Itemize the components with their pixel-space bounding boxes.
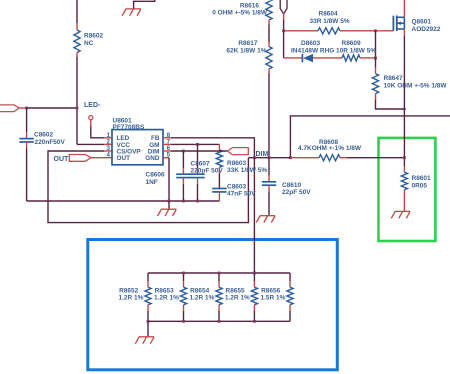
junction CS/feed to bank bbox=[253, 156, 256, 159]
svg-text:R8609: R8609 bbox=[342, 40, 362, 47]
pin wire pin 6 DIM bbox=[163, 150, 171, 152]
resistor R8654 bbox=[216, 287, 222, 305]
pin wire R8654 bottom bbox=[218, 305, 220, 311]
ground (bank) bbox=[139, 336, 155, 338]
svg-text:R8656: R8656 bbox=[261, 287, 281, 294]
junction CS row / riser bbox=[289, 156, 292, 159]
pin wire C8610 bottom bbox=[268, 185, 270, 191]
pin wire R8608 left bbox=[290, 157, 319, 159]
wire top connector to gate node bbox=[283, 20, 285, 31]
pin wire R8653 top bbox=[183, 281, 185, 287]
junction gate drive node bbox=[282, 29, 285, 32]
junction VCC net bbox=[76, 107, 79, 110]
svg-text:62K 1/8W 1%: 62K 1/8W 1% bbox=[226, 47, 266, 54]
wire R8616 to R8617 bbox=[268, 25, 270, 43]
resistor R8616 bbox=[266, 0, 272, 20]
junction C8606/ground bus bbox=[182, 200, 185, 203]
wire R8655 bottom bbox=[253, 311, 255, 321]
pin wire R8601 top bbox=[403, 166, 405, 172]
capacitor C8607 bbox=[190, 173, 204, 175]
wire GM node down to C8607 bbox=[197, 144, 199, 168]
svg-text:220nF50V: 220nF50V bbox=[35, 139, 66, 146]
svg-text:1NF: 1NF bbox=[146, 179, 158, 186]
wire DIM node down to C8606 bbox=[182, 151, 184, 168]
ground (C8610) bbox=[260, 215, 276, 217]
svg-text:AOD2922: AOD2922 bbox=[412, 26, 441, 33]
resistor R8656 bbox=[287, 287, 293, 305]
svg-text:4.7KOHM +-1% 1/8W: 4.7KOHM +-1% 1/8W bbox=[298, 145, 362, 152]
pin wire from input connector bbox=[19, 107, 26, 109]
junction bank top bus bbox=[182, 272, 185, 275]
resistor R8609 bbox=[342, 55, 360, 61]
ground bus wire bbox=[27, 200, 220, 202]
resistor R8602 bbox=[74, 30, 80, 53]
wire gate node down to diode row bbox=[283, 31, 285, 58]
svg-text:0R05: 0R05 bbox=[412, 183, 428, 190]
pin wire C8607 bottom bbox=[197, 178, 199, 184]
svg-text:R8616: R8616 bbox=[240, 2, 260, 9]
wire top ground stub bbox=[134, 0, 155, 9]
wire stub to ground symbol bbox=[168, 201, 170, 209]
svg-text:47nF 50V: 47nF 50V bbox=[227, 190, 256, 197]
svg-text:DIM: DIM bbox=[256, 151, 269, 158]
pin wire R8604 right bbox=[340, 30, 376, 32]
svg-text:220pF 50V: 220pF 50V bbox=[191, 168, 224, 175]
svg-text:D8603: D8603 bbox=[301, 40, 321, 47]
pin wire R8609 right bbox=[360, 57, 376, 59]
wire R8654 bottom bbox=[218, 311, 220, 321]
pin wire R8603 top bbox=[218, 144, 220, 149]
wire bank top bus bbox=[148, 272, 290, 274]
svg-text:R8602: R8602 bbox=[84, 33, 104, 40]
wire R8603 to C8603 bbox=[218, 173, 220, 189]
junction bank top bus bbox=[253, 272, 256, 275]
junction R8608/source column bbox=[403, 156, 406, 159]
svg-text:Q8601: Q8601 bbox=[412, 19, 432, 26]
pin wire R8655 bottom bbox=[253, 305, 255, 311]
pin wire R8602 bottom bbox=[76, 53, 78, 58]
svg-text:C8606: C8606 bbox=[146, 172, 166, 179]
svg-text:NC: NC bbox=[84, 40, 94, 47]
op-amp U8601 PF7708BS body bbox=[112, 130, 163, 165]
wire GND pin down to ground bus bbox=[168, 158, 170, 201]
svg-text:C8607: C8607 bbox=[191, 161, 211, 168]
pin wire R8654 top bbox=[218, 281, 220, 287]
junction bank bottom bus bbox=[218, 320, 221, 323]
junction feed/bank top bus bbox=[253, 272, 256, 275]
capacitor C8606 bbox=[176, 173, 190, 175]
pin wire C8603 bottom to ground bus bbox=[218, 192, 220, 201]
svg-text:1.2R 1%: 1.2R 1% bbox=[190, 295, 215, 302]
wire to MOSFET gate bbox=[376, 30, 394, 32]
capacitor C8602 bbox=[19, 138, 33, 140]
svg-text:33K 1/8W 5%: 33K 1/8W 5% bbox=[227, 167, 267, 174]
svg-text:R8652: R8652 bbox=[119, 287, 139, 294]
resistor R8652 bbox=[145, 287, 151, 305]
svg-text:R8655: R8655 bbox=[226, 287, 246, 294]
wire R8653 top bbox=[183, 273, 185, 281]
wire bank to ground bbox=[147, 321, 149, 337]
pin wire R8656 top bbox=[289, 281, 291, 287]
wire R8653 bottom bbox=[183, 311, 185, 321]
wire R8655 top bbox=[253, 273, 255, 281]
junction R8604/R8609/R8647 bbox=[374, 29, 377, 32]
wire GM to R8603 bbox=[171, 143, 219, 145]
wire input node down to C8602 bbox=[26, 108, 28, 133]
svg-text:OUT: OUT bbox=[54, 156, 70, 163]
resistor R8653 bbox=[180, 287, 186, 305]
off-page connector (top, pointing down) bbox=[280, 0, 287, 14]
svg-text:22pF 50V: 22pF 50V bbox=[282, 189, 311, 196]
pin wire C8602 bottom bbox=[26, 142, 28, 148]
junction CS/R8617 column bbox=[268, 156, 271, 159]
svg-text:R8647: R8647 bbox=[384, 75, 404, 82]
pin wire C8602 top bbox=[26, 133, 28, 139]
junction input/C8602 bbox=[25, 107, 28, 110]
pin wire from LED- terminal bbox=[90, 120, 92, 127]
pin wire C8606 bottom bbox=[182, 178, 184, 184]
svg-text:R8603: R8603 bbox=[227, 160, 247, 167]
pin wire source bbox=[403, 29, 405, 36]
pin wire C8607 top bbox=[197, 168, 199, 174]
junction GND/ground bus bbox=[168, 200, 171, 203]
wire source down to R8601 bbox=[403, 36, 405, 166]
wire CS/OVP left and down bbox=[48, 151, 248, 223]
pin wire D8603 anode side bbox=[284, 57, 303, 59]
svg-text:C8603: C8603 bbox=[227, 183, 247, 190]
pin wire R8652 top bbox=[147, 281, 149, 287]
resistor R8608 bbox=[319, 155, 340, 161]
wire R8656 top bbox=[289, 273, 291, 281]
resistor R8655 bbox=[251, 287, 257, 305]
pin wire D8603 to R8609 bbox=[313, 57, 342, 59]
ground (top) bbox=[125, 8, 141, 10]
svg-text:R8653: R8653 bbox=[155, 287, 175, 294]
off-page connector (left input) bbox=[0, 105, 19, 112]
wire bank bottom bus bbox=[148, 320, 290, 322]
off-page connector OUT bbox=[69, 155, 91, 162]
svg-text:OUT: OUT bbox=[117, 155, 131, 162]
svg-text:GND: GND bbox=[145, 155, 160, 162]
resistor R8601 bbox=[401, 172, 407, 190]
wire R8656 bottom bbox=[289, 311, 291, 321]
resistor R8617 bbox=[266, 47, 272, 70]
svg-text:10R 1/8W 5%: 10R 1/8W 5% bbox=[336, 48, 376, 55]
junction bank bottom bus bbox=[182, 320, 185, 323]
pin wire R8602 top bbox=[76, 23, 78, 30]
svg-text:LED-: LED- bbox=[84, 102, 101, 109]
pin wire top connector bbox=[283, 13, 285, 20]
wire R8652 top bbox=[147, 273, 149, 281]
wire R8608 to source node bbox=[347, 157, 404, 159]
node LED- open terminal bbox=[89, 116, 93, 120]
svg-text:R8654: R8654 bbox=[190, 287, 210, 294]
svg-text:R8617: R8617 bbox=[238, 40, 258, 47]
wire CS row to right edge bbox=[290, 116, 450, 158]
pin wire pin 1 LED bbox=[104, 137, 112, 139]
wire R8601 to ground bbox=[403, 196, 405, 211]
pin wire R8617 bottom bbox=[268, 69, 270, 74]
wire C8606 to ground bus bbox=[182, 184, 184, 201]
wire R8617 down to DIM/CS row bbox=[268, 74, 270, 158]
transistor Q8601 AOD2922 bbox=[392, 16, 394, 31]
pin wire R8603 bottom bbox=[218, 167, 220, 173]
wire CS node down to resistor bank bbox=[253, 158, 255, 273]
wire vertical from top edge to R8602 bbox=[76, 0, 78, 23]
pin wire R8656 bottom bbox=[289, 305, 291, 311]
wire vertical to VCC pin row bbox=[76, 108, 78, 144]
wire FB to CS node bbox=[171, 138, 254, 158]
pin wire C8606 top bbox=[182, 168, 184, 174]
svg-text:R8601: R8601 bbox=[412, 175, 432, 182]
off-page connector DIM arrow bbox=[228, 148, 249, 155]
wire down to R8647 bbox=[375, 58, 377, 68]
wire R8647 to source node bbox=[376, 99, 405, 109]
capacitor C8610 bbox=[262, 181, 276, 183]
pin wire pin 8 FB bbox=[163, 137, 171, 139]
svg-text:1.2R 1%: 1.2R 1% bbox=[154, 295, 179, 302]
highlight box (green) around R8601 bbox=[379, 138, 436, 241]
pin wire R8652 bottom bbox=[147, 305, 149, 311]
svg-text:IN4148W RHG: IN4148W RHG bbox=[291, 48, 334, 55]
junction R8609/R8647 bbox=[374, 57, 377, 60]
resistor R8604 bbox=[318, 28, 340, 34]
wire C8610 to ground bbox=[268, 191, 270, 215]
wire CS row left section bbox=[248, 157, 290, 159]
capacitor C8603 bbox=[212, 188, 226, 190]
svg-text:0 OHM +-5% 1/8W: 0 OHM +-5% 1/8W bbox=[212, 10, 268, 17]
pin wire pin 5 GND bbox=[163, 157, 169, 159]
resistor R8647 bbox=[372, 74, 378, 94]
svg-text:C8610: C8610 bbox=[282, 182, 302, 189]
pin wire C8610 top bbox=[268, 176, 270, 182]
pin wire R8616 bottom bbox=[268, 20, 270, 25]
svg-text:R8604: R8604 bbox=[319, 11, 339, 18]
wire C8602 down to ground bus bbox=[26, 148, 28, 201]
pin wire R8604 left bbox=[284, 30, 318, 32]
wire input to VCC net vertical bbox=[27, 107, 77, 109]
wire junction column R8604 to R8609 row bbox=[375, 31, 377, 58]
svg-text:PF7708BS: PF7708BS bbox=[113, 124, 145, 131]
svg-text:1.2R 1%: 1.2R 1% bbox=[225, 295, 250, 302]
svg-text:33R 1/8W 5%: 33R 1/8W 5% bbox=[310, 18, 350, 25]
svg-text:1.5R 1%: 1.5R 1% bbox=[261, 295, 286, 302]
wire node down to C8610 bbox=[268, 158, 270, 176]
pin wire R8655 top bbox=[253, 281, 255, 287]
pin wire pin 2 VCC bbox=[104, 143, 112, 145]
ground (R8601) bbox=[395, 210, 411, 212]
wire DIM to arrow bbox=[171, 150, 228, 152]
svg-text:10K OHM +-5% 1/8W: 10K OHM +-5% 1/8W bbox=[384, 83, 448, 90]
diode D8603 bbox=[301, 54, 303, 62]
wire drain from top edge bbox=[403, 0, 405, 17]
junction DIM/C8606 bbox=[182, 150, 185, 153]
wire LED- to pin 1 bbox=[91, 127, 105, 138]
pin wire R8608 right bbox=[340, 157, 347, 159]
pin wire R8647 top bbox=[375, 68, 377, 74]
junction GM/C8607 bbox=[196, 143, 199, 146]
pin wire pin 3 CS/OVP bbox=[104, 150, 112, 152]
svg-text:C8602: C8602 bbox=[34, 132, 54, 139]
wire to pin 2 VCC bbox=[77, 143, 104, 145]
svg-text:1.2R 1%: 1.2R 1% bbox=[119, 295, 144, 302]
wire R8602 bottom to node at LED- row bbox=[76, 57, 78, 108]
pin wire R8601 bottom bbox=[403, 190, 405, 196]
junction bank top bus bbox=[218, 272, 221, 275]
pin wire pin 7 GM bbox=[163, 143, 171, 145]
wire C8607 to ground bus bbox=[197, 184, 199, 201]
pin wire R8647 bottom bbox=[375, 94, 377, 100]
resistor R8603 bbox=[216, 150, 222, 168]
wire R8654 top bbox=[218, 273, 220, 281]
junction bank ground bbox=[147, 320, 150, 323]
pin wire R8653 bottom bbox=[183, 305, 185, 311]
svg-text:4: 4 bbox=[107, 152, 111, 159]
highlight box (blue) around current-sense resistor bank bbox=[88, 240, 337, 370]
junction C8607/ground bus bbox=[196, 200, 199, 203]
junction bank bottom bus bbox=[253, 320, 256, 323]
pin wire R8617 top bbox=[268, 42, 270, 47]
junction R8647/source bbox=[403, 108, 405, 110]
wire R8652 bottom bbox=[147, 311, 149, 321]
pin wire pin 4 OUT bbox=[91, 157, 112, 159]
ground (chip GND) bbox=[161, 208, 177, 210]
